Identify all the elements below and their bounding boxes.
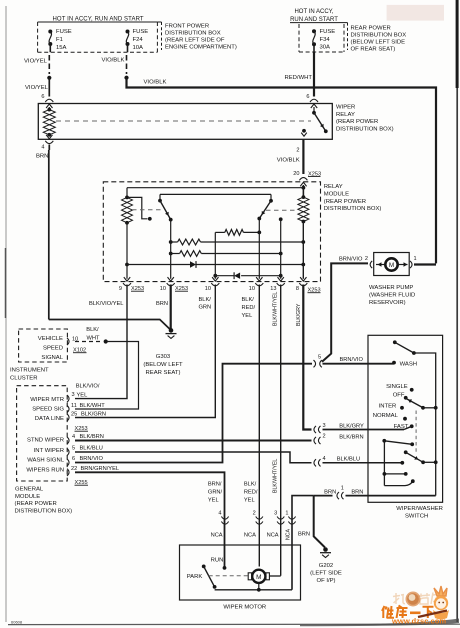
svg-text:OFF: OFF bbox=[393, 392, 405, 398]
svg-text:YEL: YEL bbox=[77, 393, 88, 399]
svg-text:F34: F34 bbox=[320, 37, 331, 43]
svg-text:BRN: BRN bbox=[298, 532, 310, 538]
svg-text:WIPERS RUN: WIPERS RUN bbox=[26, 468, 64, 474]
general module box (dashed) bbox=[17, 386, 68, 481]
svg-text:DATA LINE: DATA LINE bbox=[35, 416, 64, 422]
switch main blade bbox=[421, 406, 425, 410]
relay module left coil elbow to contact bbox=[127, 197, 148, 218]
svg-text:BLK/VIO/YEL: BLK/VIO/YEL bbox=[89, 301, 123, 307]
svg-text:2: 2 bbox=[365, 256, 368, 262]
svg-text:CLUSTER: CLUSTER bbox=[10, 376, 38, 382]
svg-text:BLK/VIO/: BLK/VIO/ bbox=[76, 384, 100, 390]
svg-text:(BELOW LEFT SIDE: (BELOW LEFT SIDE bbox=[351, 40, 406, 46]
relay module right coil bbox=[302, 188, 304, 197]
svg-text:(WASHER FLUID: (WASHER FLUID bbox=[369, 293, 415, 299]
switch speed blade bbox=[404, 450, 408, 454]
page right border bbox=[456, 0, 458, 622]
relay module resistor R2 row bbox=[169, 252, 173, 256]
relay module resistor R3 row bbox=[215, 231, 225, 233]
wire BRN/VIO wash signal to switch pin 5 bbox=[75, 364, 312, 463]
svg-text:F24: F24 bbox=[133, 37, 144, 43]
relay module left coil bbox=[122, 197, 128, 222]
svg-text:BLK/BLU: BLK/BLU bbox=[80, 446, 103, 452]
svg-text:FUSE: FUSE bbox=[320, 29, 336, 35]
svg-text:G202: G202 bbox=[319, 563, 333, 569]
svg-text:RED/WHT: RED/WHT bbox=[285, 75, 313, 81]
svg-text:60608: 60608 bbox=[11, 619, 23, 624]
svg-text:G303: G303 bbox=[156, 354, 171, 360]
wire BLK/GRN pin10 to DATA LINE bbox=[75, 285, 215, 418]
svg-text:BLK/: BLK/ bbox=[244, 482, 257, 488]
svg-text:DISTRIBUTION BOX): DISTRIBUTION BOX) bbox=[324, 206, 382, 212]
relay module right contact dot bbox=[279, 217, 283, 221]
instrument cluster box (dashed) bbox=[19, 329, 68, 362]
switch pin 2 BLK/BRN bbox=[314, 437, 316, 444]
relay module pivot rail bbox=[160, 193, 271, 195]
svg-text:5: 5 bbox=[72, 446, 75, 452]
svg-text:1: 1 bbox=[414, 256, 417, 262]
svg-text:YEL: YEL bbox=[244, 498, 255, 504]
wire BRN to ground G303 bbox=[49, 320, 171, 331]
svg-text:RELAY: RELAY bbox=[324, 184, 343, 190]
svg-text:WIPER/WASHER: WIPER/WASHER bbox=[396, 506, 443, 512]
dzsc watermark logo bbox=[393, 593, 440, 605]
svg-text:RELAY: RELAY bbox=[336, 112, 355, 118]
svg-text:WIPER MTR: WIPER MTR bbox=[30, 397, 64, 403]
relay module diode D2 row bbox=[213, 274, 217, 278]
svg-text:(REAR POWER: (REAR POWER bbox=[336, 119, 378, 125]
wiper relay contact switch bbox=[313, 107, 315, 113]
svg-text:(REAR POWER: (REAR POWER bbox=[15, 501, 57, 507]
wiper motor box bbox=[180, 545, 301, 600]
svg-text:20: 20 bbox=[293, 171, 299, 177]
svg-text:WIPER MOTOR: WIPER MOTOR bbox=[223, 605, 266, 611]
svg-text:HOT IN ACCY,: HOT IN ACCY, bbox=[294, 9, 333, 15]
pink watermark remnant bbox=[387, 5, 444, 21]
svg-text:VIO/BLK: VIO/BLK bbox=[102, 57, 125, 63]
wire BLK/BLU to switch pin 4 bbox=[75, 452, 312, 463]
svg-text:4: 4 bbox=[41, 145, 44, 151]
page left border bbox=[5, 6, 7, 622]
svg-text:2: 2 bbox=[253, 511, 256, 517]
svg-text:(REAR POWER: (REAR POWER bbox=[324, 199, 366, 205]
wiper relay coil bbox=[48, 107, 50, 110]
svg-text:WASH SIGNL: WASH SIGNL bbox=[27, 458, 64, 464]
svg-text:6: 6 bbox=[306, 94, 309, 100]
svg-text:10: 10 bbox=[160, 286, 166, 292]
svg-text:MODULE: MODULE bbox=[15, 494, 40, 500]
wire BRN pin10 to ground G303 bbox=[170, 285, 172, 331]
svg-text:BRN: BRN bbox=[324, 489, 336, 495]
relay module right switch bbox=[270, 194, 272, 200]
svg-text:DISTRIBUTION BOX: DISTRIBUTION BOX bbox=[351, 33, 407, 39]
svg-text:3: 3 bbox=[323, 423, 326, 429]
relay module resistor R1 row bbox=[169, 240, 173, 244]
wire BLK/RED/YEL pin10 to wiper motor bbox=[258, 285, 260, 567]
svg-text:BRN: BRN bbox=[351, 489, 363, 495]
svg-text:VIO/YEL: VIO/YEL bbox=[24, 58, 48, 64]
svg-text:BLK/: BLK/ bbox=[242, 297, 255, 303]
wiper-washer switch box bbox=[368, 335, 443, 502]
svg-text:30A: 30A bbox=[320, 45, 331, 51]
svg-text:BLK/BLU: BLK/BLU bbox=[337, 457, 360, 463]
fuse F24 10A bbox=[126, 30, 130, 34]
svg-text:4: 4 bbox=[218, 511, 221, 517]
svg-text:SPEED: SPEED bbox=[43, 346, 63, 352]
svg-text:BRN/GRN/YEL: BRN/GRN/YEL bbox=[81, 466, 120, 472]
svg-text:BLK/: BLK/ bbox=[86, 327, 99, 333]
svg-text:YEL: YEL bbox=[242, 313, 253, 319]
relay module column c3 pin 10 bbox=[214, 232, 216, 278]
washer pump pin 2 connector bbox=[370, 261, 372, 268]
svg-text:WHT: WHT bbox=[87, 336, 100, 342]
svg-text:OF REAR SEAT): OF REAR SEAT) bbox=[351, 47, 396, 53]
svg-text:BRN/VIO: BRN/VIO bbox=[340, 357, 364, 363]
svg-text:BRN: BRN bbox=[156, 301, 168, 307]
svg-text:1: 1 bbox=[341, 486, 344, 492]
svg-text:GRN: GRN bbox=[199, 305, 212, 311]
svg-text:(BELOW LEFT: (BELOW LEFT bbox=[143, 362, 183, 368]
page bottom scan band bbox=[8, 623, 460, 625]
svg-text:4: 4 bbox=[72, 434, 75, 440]
wiper relay control dashed line bbox=[56, 120, 311, 122]
svg-text:WASH: WASH bbox=[400, 361, 417, 367]
switch pin 5 connector BRN/VIO bbox=[314, 360, 316, 367]
svg-text:BLK/GRY: BLK/GRY bbox=[296, 303, 302, 326]
svg-text:FUSE: FUSE bbox=[133, 29, 149, 35]
svg-text:SIGNAL: SIGNAL bbox=[41, 355, 63, 361]
svg-text:BLK/GRN: BLK/GRN bbox=[81, 412, 106, 418]
svg-text:BRN/VIO: BRN/VIO bbox=[339, 257, 363, 263]
svg-text:RUN: RUN bbox=[211, 558, 224, 564]
label REAR POWER DISTRIBUTION BOX bbox=[344, 22, 348, 24]
switch mechanical linkage dashed bbox=[415, 411, 417, 453]
svg-text:www.dzsc.com: www.dzsc.com bbox=[391, 617, 446, 626]
relay module diode D1 row bbox=[125, 263, 129, 267]
svg-text:NCA: NCA bbox=[211, 533, 223, 539]
svg-text:BLK/WHT/YEL: BLK/WHT/YEL bbox=[273, 292, 279, 326]
wire VIO/BLK from fuse F24 bbox=[127, 46, 129, 52]
svg-text:NORMAL: NORMAL bbox=[373, 413, 399, 419]
switch WASH contact and blade bbox=[392, 361, 396, 365]
svg-text:STND WIPER: STND WIPER bbox=[27, 438, 64, 444]
svg-text:RED/: RED/ bbox=[244, 490, 258, 496]
svg-text:SINGLE: SINGLE bbox=[386, 384, 408, 390]
svg-text:BLK/BRN: BLK/BRN bbox=[339, 434, 363, 440]
svg-text:2: 2 bbox=[323, 434, 326, 440]
relay module right control dashed bbox=[266, 209, 298, 211]
svg-text:25: 25 bbox=[71, 412, 77, 418]
relay module column c6 pin 8 bbox=[302, 222, 304, 279]
wire BLK/WHT/YEL pin13 to wiper motor bbox=[280, 285, 282, 576]
wire BLK/VIO/YEL pin9 to general module WIPER MTR bbox=[75, 285, 127, 399]
svg-text:VIO/BLK: VIO/BLK bbox=[277, 158, 300, 164]
svg-text:MODULE: MODULE bbox=[324, 192, 349, 198]
wiper motor bottom row bbox=[215, 589, 292, 591]
switch pin 4 BLK/BLU bbox=[314, 459, 316, 466]
svg-text:10: 10 bbox=[249, 286, 255, 292]
switch lower park circuit bbox=[383, 441, 385, 486]
svg-text:22: 22 bbox=[71, 466, 77, 472]
svg-text:INT WIPER: INT WIPER bbox=[34, 448, 64, 454]
svg-text:WIPER: WIPER bbox=[336, 105, 355, 111]
svg-text:NCA: NCA bbox=[286, 529, 292, 540]
svg-text:RESERVOIR): RESERVOIR) bbox=[369, 300, 406, 306]
wire BRN wiper motor pin 1 bbox=[292, 496, 314, 590]
wire BLK/GRY pin8 to wiper-washer switch pin3 bbox=[303, 285, 311, 430]
svg-text:NCA: NCA bbox=[244, 533, 256, 539]
relay module column c5 pin 13 bbox=[280, 219, 282, 278]
svg-text:REAR SEAT): REAR SEAT) bbox=[146, 370, 181, 376]
svg-text:F1: F1 bbox=[56, 37, 63, 43]
svg-text:BRN: BRN bbox=[36, 153, 48, 159]
svg-text:BLK/: BLK/ bbox=[199, 297, 212, 303]
relay module column c1 pin 9 bbox=[126, 223, 128, 279]
relay module left switch bbox=[159, 194, 161, 200]
svg-text:YEL: YEL bbox=[208, 498, 219, 504]
relay module column c4 pin 10 bbox=[258, 219, 260, 279]
svg-text:VEHICLE: VEHICLE bbox=[38, 336, 63, 342]
wire BLK/WHT speed signal bbox=[75, 341, 102, 343]
wire BRN/GRN/YEL wipers-run to wiper motor bbox=[75, 472, 225, 568]
wiper relay pin 4 bbox=[46, 135, 52, 139]
relay module box (dashed) bbox=[103, 182, 320, 282]
svg-text:2: 2 bbox=[296, 147, 299, 153]
svg-text:DISTRIBUTION BOX): DISTRIBUTION BOX) bbox=[15, 508, 73, 514]
svg-text:SPEED SIG: SPEED SIG bbox=[32, 407, 64, 413]
svg-text:VIO/BLK: VIO/BLK bbox=[144, 79, 167, 85]
washer pump motor M bbox=[385, 258, 397, 270]
svg-text:GRN/: GRN/ bbox=[208, 490, 223, 496]
relay module column c2 pin 10 bbox=[170, 220, 172, 279]
relay module left control dashed bbox=[132, 209, 161, 211]
svg-text:REAR POWER: REAR POWER bbox=[351, 26, 391, 32]
svg-text:DISTRIBUTION BOX): DISTRIBUTION BOX) bbox=[336, 126, 394, 132]
svg-text:FRONT POWER: FRONT POWER bbox=[165, 24, 209, 30]
svg-text:M: M bbox=[389, 262, 394, 269]
wire RED/WHT from fuse F34 bbox=[313, 46, 315, 52]
ground G202 bbox=[323, 547, 328, 552]
svg-text:WASHER PUMP: WASHER PUMP bbox=[369, 285, 413, 291]
wiper motor park dashed linkage bbox=[209, 575, 250, 577]
svg-text:(REAR LEFT SIDE OF: (REAR LEFT SIDE OF bbox=[165, 38, 225, 44]
rear power distribution box (dashed) bbox=[298, 24, 300, 52]
svg-text:11: 11 bbox=[71, 403, 77, 409]
svg-text:5: 5 bbox=[318, 354, 321, 360]
fuse F1 15A bbox=[48, 30, 52, 34]
svg-text:M: M bbox=[256, 574, 261, 581]
wire VIO/YEL from fuse F1 bbox=[49, 46, 51, 52]
svg-text:RED/: RED/ bbox=[242, 305, 256, 311]
svg-text:3: 3 bbox=[274, 511, 277, 517]
svg-text:BLK/BRN: BLK/BRN bbox=[80, 434, 104, 440]
front power distribution box (dashed) bbox=[38, 21, 158, 23]
svg-text:INSTRUMENT: INSTRUMENT bbox=[10, 368, 49, 374]
svg-text:BLK/WHT/YEL: BLK/WHT/YEL bbox=[273, 459, 279, 493]
svg-text:10A: 10A bbox=[133, 45, 144, 51]
fuse F34 30A bbox=[312, 29, 316, 33]
svg-text:PARK: PARK bbox=[187, 574, 203, 580]
svg-text:DISTRIBUTION BOX: DISTRIBUTION BOX bbox=[165, 31, 221, 37]
svg-text:BRN/VIO: BRN/VIO bbox=[80, 456, 104, 462]
wire BLK/BRN to switch pin 2 bbox=[75, 440, 312, 442]
svg-text:BLK/WHT: BLK/WHT bbox=[80, 403, 106, 409]
svg-text:9: 9 bbox=[119, 286, 122, 292]
svg-text:VIO/YEL: VIO/YEL bbox=[25, 85, 49, 91]
svg-text:ENGINE COMPARTMENT): ENGINE COMPARTMENT) bbox=[165, 45, 237, 51]
svg-text:6: 6 bbox=[72, 456, 75, 462]
switch pin 3 BLK/GRY to FAST bbox=[314, 426, 316, 433]
svg-text:6: 6 bbox=[41, 94, 44, 100]
svg-text:4: 4 bbox=[323, 456, 326, 462]
svg-text:8: 8 bbox=[296, 286, 299, 292]
svg-text:OF I/P): OF I/P) bbox=[317, 578, 336, 584]
washer pump box bbox=[374, 253, 410, 276]
svg-text:SWITCH: SWITCH bbox=[405, 514, 428, 520]
label FRONT POWER DISTRIBUTION BOX bbox=[157, 21, 161, 23]
wiper relay box bbox=[38, 104, 332, 140]
instrument cluster pin 10 X102 bbox=[67, 338, 69, 345]
svg-text:10: 10 bbox=[205, 286, 211, 292]
wiper motor right brush wire bbox=[269, 575, 280, 577]
relay module power rail from pin 20 bbox=[302, 185, 304, 197]
svg-text:FUSE: FUSE bbox=[56, 29, 72, 35]
wire BRN/VIO washer pump to switch bbox=[322, 263, 368, 361]
ground G303 bbox=[169, 328, 174, 333]
svg-text:3: 3 bbox=[72, 392, 75, 398]
svg-text:(LEFT SIDE: (LEFT SIDE bbox=[310, 571, 342, 577]
wiper motor M bbox=[252, 570, 265, 583]
svg-text:13: 13 bbox=[270, 286, 276, 292]
wire BRN from wiper relay bbox=[48, 145, 50, 151]
svg-text:NCA: NCA bbox=[267, 533, 279, 539]
svg-text:15A: 15A bbox=[56, 45, 67, 51]
svg-text:GENERAL: GENERAL bbox=[15, 487, 44, 493]
svg-text:INTER: INTER bbox=[379, 404, 397, 410]
svg-text:1: 1 bbox=[285, 511, 288, 517]
svg-text:BRN/: BRN/ bbox=[208, 482, 222, 488]
washer pump pin 1 connector bbox=[410, 261, 412, 268]
